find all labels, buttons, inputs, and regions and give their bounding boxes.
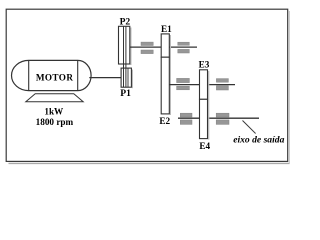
motor body left divider	[28, 60, 30, 90]
belt line left	[123, 26, 125, 87]
shaft 3 left bearing upper	[177, 78, 190, 82]
shaft 4 (output shaft)	[178, 117, 259, 119]
gear E3	[200, 70, 208, 100]
pulley P2 shadow	[130, 28, 132, 66]
motor base trapezoid	[26, 94, 83, 102]
pulley P2	[119, 26, 130, 64]
pulley P1 inner line	[127, 68, 129, 87]
pulley P1 shadow	[131, 70, 133, 89]
gear column shadow E1/E2	[169, 35, 171, 115]
svg-text:E2: E2	[159, 116, 170, 126]
gear E2	[161, 57, 169, 114]
svg-text:MOTOR: MOTOR	[36, 72, 74, 82]
shaft 4 right bearing upper	[216, 113, 229, 117]
shaft 3 right bearing lower	[216, 86, 228, 90]
belt line right	[125, 26, 127, 87]
shaft 4 right bearing lower	[216, 120, 229, 125]
shaft 3 right bearing upper	[216, 79, 228, 83]
svg-text:1800 rpm: 1800 rpm	[36, 117, 74, 127]
svg-text:1kW: 1kW	[44, 107, 64, 117]
gear E4	[200, 99, 208, 138]
motor body right divider	[77, 60, 79, 90]
svg-text:E1: E1	[161, 24, 172, 34]
shaft 3	[169, 84, 235, 86]
svg-text:E4: E4	[199, 141, 210, 151]
shaft 4 left bearing upper	[180, 113, 192, 117]
frame shadow	[9, 162, 290, 164]
svg-text:E3: E3	[199, 60, 210, 70]
shaft 2 left bearing lower	[141, 50, 153, 54]
motor body	[12, 60, 92, 90]
border frame	[6, 9, 288, 161]
shaft 3 left bearing lower	[177, 86, 190, 90]
pulley P1	[121, 68, 131, 87]
gear column shadow E3/E4	[208, 71, 210, 140]
leader line to output shaft label	[243, 121, 256, 134]
shaft 2 right bearing upper	[178, 42, 190, 45]
shaft 4 left bearing lower	[180, 120, 192, 125]
shaft 2 right bearing lower	[178, 49, 190, 53]
svg-text:P1: P1	[120, 88, 131, 99]
shaft 2	[130, 46, 197, 48]
shaft 1 (motor shaft)	[89, 77, 121, 79]
shaft 2 left bearing upper	[141, 42, 153, 45]
gear E1	[161, 34, 169, 57]
svg-text:eixo de saída: eixo de saída	[233, 135, 284, 146]
